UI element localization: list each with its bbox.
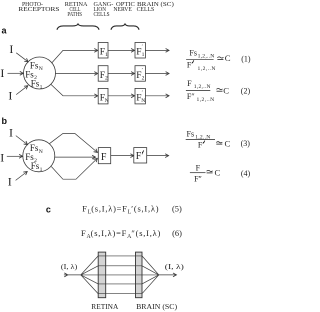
wire row1 circle to F1 (52, 50, 98, 63)
wire F1 to F'1 (108, 49, 135, 51)
svg-text:I: I (9, 126, 13, 140)
svg-text:F: F (101, 152, 107, 163)
svg-text:Fs: Fs (31, 79, 40, 89)
svg-text:I: I (8, 89, 12, 103)
wire middle path circle to F (b) (55, 156, 96, 158)
svg-text:b: b (2, 116, 8, 126)
svg-text:F″: F″ (194, 174, 202, 183)
equation 3 (186, 129, 251, 149)
label Fs_N (a) (30, 60, 43, 72)
wire row2 circle to F2 (56, 73, 98, 75)
label Fs_N (b) (30, 143, 43, 155)
svg-text:C: C (225, 138, 231, 148)
wire F2 to F'2 (108, 73, 135, 75)
brain bar (136, 252, 143, 298)
arrow I top (a) (16, 53, 28, 62)
photoreceptor circle (a) (24, 57, 56, 89)
output arrow row1 (145, 49, 169, 51)
wire FN to F'N (108, 95, 135, 97)
svg-text:(I, λ): (I, λ) (165, 263, 185, 271)
box F (b) (98, 148, 110, 164)
channel lines retina to brain (81, 256, 159, 294)
box F'2 (135, 66, 145, 82)
svg-text:(3): (3) (241, 139, 251, 148)
svg-text:1: 1 (40, 167, 43, 173)
label Fs_2 (a) (25, 69, 37, 81)
svg-text:CELLS: CELLS (94, 12, 110, 18)
label PHOTO-RECEPTORS (18, 2, 59, 13)
fan left: point to retina (81, 256, 98, 294)
output arrow row2 (145, 73, 169, 75)
photoreceptor circle (b) (23, 140, 55, 172)
label RETINA CELL PATHS (65, 2, 88, 18)
svg-text:1: 1 (142, 52, 145, 58)
svg-text:Fs: Fs (31, 161, 40, 171)
box F1 (98, 43, 108, 59)
svg-text:F: F (196, 164, 201, 173)
svg-text:(2): (2) (241, 86, 251, 95)
box F' (b) (134, 148, 147, 163)
svg-text:N: N (39, 66, 43, 72)
label Fs_1 (a) (31, 79, 43, 91)
svg-text:Fs: Fs (187, 129, 195, 138)
svg-text:(4): (4) (241, 169, 251, 178)
svg-text:Fs: Fs (189, 48, 197, 57)
svg-text:F′: F′ (187, 60, 193, 69)
box FN (98, 88, 109, 104)
retina bar (98, 252, 106, 298)
svg-text:I: I (0, 151, 4, 165)
svg-text:F: F (187, 79, 192, 88)
svg-text:(1): (1) (241, 55, 251, 64)
svg-text:1,2,..N: 1,2,..N (194, 84, 211, 90)
label GANG-LION CELLS (94, 2, 114, 18)
output arrow right (159, 274, 177, 276)
arrow I bottom (b) (16, 172, 28, 181)
svg-text:F′: F′ (198, 141, 204, 150)
fan right: brain to point (142, 256, 159, 294)
svg-text:1: 1 (105, 52, 108, 58)
svg-text:CELLS: CELLS (137, 7, 155, 13)
equation 1 (186, 48, 251, 71)
arrow I middle (a) (8, 72, 24, 74)
svg-text:′: ′ (142, 44, 143, 50)
svg-text:I: I (8, 175, 12, 189)
svg-text:I: I (0, 66, 4, 80)
arrow I middle (b) (7, 155, 23, 157)
svg-text:N: N (39, 149, 43, 155)
equation 2 (186, 79, 251, 103)
label Fs_2 (b) (25, 152, 37, 164)
svg-text:PATHS: PATHS (67, 12, 82, 18)
output arrow row3 (145, 95, 169, 97)
wire F to F' (b) (111, 155, 134, 157)
svg-text:N: N (141, 98, 145, 104)
svg-text:N: N (105, 98, 109, 104)
svg-text:2: 2 (142, 75, 145, 81)
svg-text:I: I (9, 42, 13, 56)
box F2 (98, 66, 108, 82)
brace under optic nerve (111, 24, 139, 30)
svg-text:F″: F″ (187, 92, 195, 101)
svg-text:C: C (215, 167, 221, 177)
wire bottom path circle to F (b) (51, 158, 97, 179)
svg-text:′: ′ (142, 67, 143, 73)
equation 5 (82, 204, 182, 215)
wire row3 circle to FN (51, 84, 98, 96)
output arrow (b) (147, 155, 169, 157)
label OPTIC NERVE (113, 2, 134, 13)
arrow I bottom (a) (16, 86, 28, 95)
svg-text:(6): (6) (172, 229, 182, 238)
svg-text:RECEPTORS: RECEPTORS (18, 7, 59, 13)
label Fs_1 (b) (31, 161, 43, 173)
svg-text:1,2,..N: 1,2,..N (198, 53, 215, 59)
input arrow left (64, 273, 81, 277)
svg-text:C: C (223, 86, 229, 96)
svg-text:′: ′ (142, 90, 143, 96)
equation 6 (81, 229, 182, 240)
brace under retina cell paths (57, 24, 99, 30)
svg-text:1,2,..N: 1,2,..N (198, 66, 216, 72)
svg-text:1: 1 (40, 84, 43, 90)
arrow I top (b) (16, 136, 28, 145)
label BRAIN (SC) CELLS (137, 1, 174, 13)
svg-text:c: c (46, 205, 51, 215)
equation 4 (190, 164, 251, 184)
wire top path circle to F (b) (49, 134, 97, 153)
svg-text:RETINA: RETINA (91, 303, 118, 311)
svg-text:(I, λ): (I, λ) (61, 263, 78, 271)
svg-text:(5): (5) (172, 204, 182, 213)
svg-text:1,2,..N: 1,2,..N (197, 97, 215, 103)
svg-text:NERVE: NERVE (113, 7, 132, 13)
svg-text:2: 2 (105, 75, 108, 81)
box F'N (135, 88, 145, 104)
svg-text:C: C (225, 53, 231, 63)
box F'1 (135, 43, 145, 59)
svg-text:BRAIN (SC): BRAIN (SC) (136, 303, 178, 311)
